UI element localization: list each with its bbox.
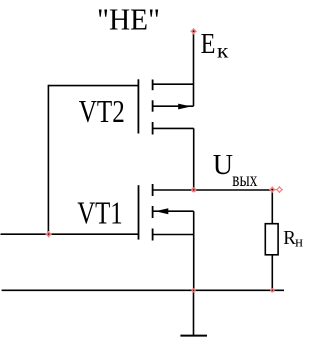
- node output junction red marker: [191, 187, 196, 192]
- svg-text:U: U: [213, 150, 233, 181]
- svg-text:вых: вых: [232, 167, 257, 191]
- node corner red marker with black dot: [269, 186, 275, 192]
- svg-text:н: н: [295, 235, 303, 251]
- svg-text:VT1: VT1: [77, 195, 123, 230]
- VT2 drain lead: [153, 83, 194, 85]
- wire E_K vertical: [193, 32, 195, 107]
- VT2 gate line: [137, 79, 139, 133]
- node resistor-rail junction red marker: [270, 288, 274, 292]
- wire red stub to open terminal: [275, 189, 278, 191]
- svg-text:"НЕ": "НЕ": [97, 3, 160, 37]
- VT2 drain tick: [152, 80, 154, 91]
- VT2 body tick: [152, 100, 154, 111]
- VT2 source lead: [153, 127, 194, 129]
- node rail-ground junction red marker: [191, 288, 195, 292]
- node input junction red marker: [45, 231, 51, 237]
- transistor VT1 (n-channel, bottom): [139, 184, 194, 290]
- transistor VT2 (p-channel, top): [138, 79, 193, 134]
- wire resistor bottom to rail: [271, 255, 273, 290]
- node open terminal red diamond: [276, 186, 283, 193]
- wire VT2 source down to output node: [193, 128, 195, 190]
- wire bottom rail: [2, 289, 284, 291]
- svg-text:к: к: [217, 39, 229, 63]
- wire output corner down to resistor: [271, 190, 273, 224]
- VT1 source tick: [152, 229, 154, 241]
- wire top-left to VT2 gate: [48, 85, 138, 87]
- VT1 right vertical to ground rail: [193, 211, 195, 290]
- VT2 body arrow (points right): [178, 104, 191, 110]
- ground: [180, 290, 207, 335]
- VT1 body lead: [153, 210, 194, 212]
- wire left rail vertical: [47, 85, 49, 234]
- VT1 body arrow (points left): [155, 208, 168, 214]
- VT1 gate line: [138, 185, 140, 239]
- wire output horizontal (VT1 drain to R corner): [153, 189, 273, 191]
- VT1 source lead: [153, 234, 194, 236]
- VT2 source tick: [152, 122, 154, 135]
- resistor R_н body: [265, 224, 278, 255]
- ground bar: [180, 335, 207, 337]
- VT1 body tick: [152, 206, 154, 218]
- VT2 body lead: [153, 105, 194, 107]
- ground stem: [193, 290, 195, 335]
- svg-text:VT2: VT2: [79, 94, 125, 129]
- VT1 drain tick: [152, 184, 154, 196]
- node E_K terminal red marker: [190, 28, 196, 34]
- svg-text:E: E: [201, 29, 216, 60]
- wire input horizontal: [1, 233, 139, 235]
